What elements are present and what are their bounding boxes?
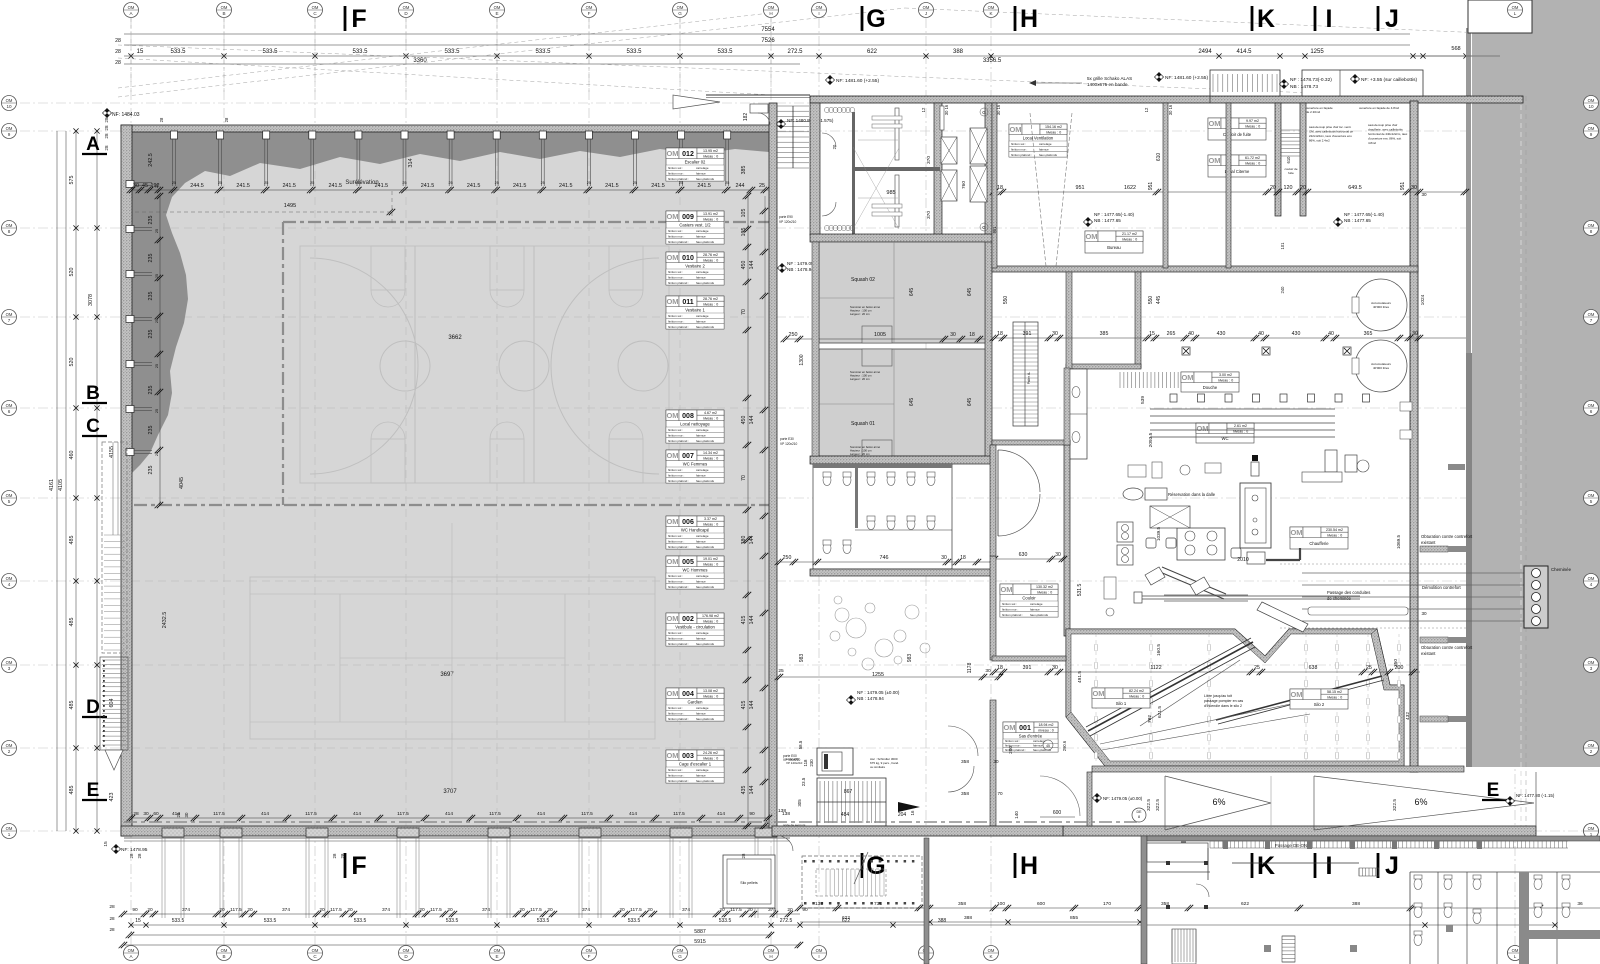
silo pellets box [723, 855, 775, 908]
svg-text:OM: OM [494, 5, 501, 10]
svg-text:105: 105 [741, 209, 747, 218]
svg-text:25: 25 [172, 181, 176, 185]
svg-text:Démolition contrefort: Démolition contrefort [1422, 585, 1461, 590]
svg-text:OM: OM [1000, 585, 1012, 594]
svg-text:20: 20 [787, 907, 793, 913]
court dashed boundary [283, 221, 769, 223]
svg-text:G: G [678, 11, 682, 16]
svg-text:3: 3 [1590, 666, 1593, 671]
svg-text:NB : 1478.94: NB : 1478.94 [787, 267, 814, 272]
svg-text:117.5: 117.5 [213, 811, 225, 817]
svg-text:30: 30 [133, 183, 139, 189]
svg-text:28: 28 [332, 853, 337, 858]
top wall pilasters [171, 131, 178, 139]
obturation bar upper [1448, 464, 1465, 470]
svg-text:finition mur :: finition mur : [668, 474, 685, 478]
svg-text:25: 25 [402, 181, 406, 185]
svg-text:533.5: 533.5 [170, 49, 186, 55]
svg-text:244: 244 [736, 183, 745, 189]
svg-text:414: 414 [445, 811, 453, 817]
svg-text:3078: 3078 [88, 294, 94, 306]
svg-text:144: 144 [749, 261, 755, 270]
svg-text:533.5: 533.5 [444, 49, 460, 55]
svg-text:OM: OM [1196, 424, 1208, 433]
svg-text:OM: OM [403, 948, 410, 953]
top wall main [810, 96, 1523, 103]
svg-text:15: 15 [103, 841, 109, 847]
grid axes [130, 18, 132, 948]
svg-text:OM: OM [1085, 232, 1097, 241]
svg-text:154.16 m2: 154.16 m2 [1045, 125, 1062, 129]
svg-text:8: 8 [1138, 815, 1140, 819]
svg-text:OM: OM [666, 212, 678, 221]
svg-text:NF : 1477.65(-1.40): NF : 1477.65(-1.40) [1094, 212, 1135, 217]
silo conveyors [1088, 642, 1253, 731]
svg-text:374: 374 [182, 907, 190, 913]
top right white box [1468, 0, 1532, 33]
chaufferie machinery [1117, 522, 1133, 542]
ramp left wall [1087, 772, 1092, 826]
svg-text:C: C [86, 416, 100, 437]
svg-text:faience: faience [1039, 148, 1049, 152]
svg-text:finition plafond :: finition plafond : [1011, 153, 1032, 157]
svg-text:5887: 5887 [694, 929, 706, 935]
svg-text:28.76 m2: 28.76 m2 [703, 297, 718, 301]
svg-text:358: 358 [961, 791, 969, 797]
label silo 2 [1290, 689, 1348, 709]
svg-text:OM: OM [6, 826, 13, 831]
svg-text:OM: OM [1009, 125, 1021, 134]
svg-text:782: 782 [1147, 715, 1153, 723]
svg-text:130.32 m2: 130.32 m2 [1036, 585, 1053, 589]
svg-text:G: G [982, 225, 986, 230]
dark edge strip upper [1466, 28, 1471, 353]
elevator and stair [817, 748, 853, 775]
svg-text:432: 432 [1405, 712, 1411, 720]
svg-text:OM: OM [6, 312, 13, 317]
colonnade columns [124, 837, 790, 839]
svg-text:40: 40 [1258, 331, 1264, 337]
svg-text:3662: 3662 [448, 335, 462, 341]
svg-text:5915: 5915 [694, 939, 706, 945]
svg-text:8: 8 [8, 229, 11, 234]
svg-text:OM: OM [312, 948, 319, 953]
svg-text:550: 550 [1148, 296, 1154, 305]
svg-text:105: 105 [741, 228, 747, 237]
local ventilation left wall [992, 103, 997, 268]
svg-text:porte E30: porte E30 [780, 437, 794, 441]
svg-text:30: 30 [143, 811, 149, 817]
svg-text:saut-de-loup prise d'air loc.: saut-de-loup prise d'air loc. venti. [1309, 125, 1352, 129]
mid dim row 1622 [995, 191, 1466, 193]
svg-text:OM: OM [666, 614, 678, 623]
svg-text:374: 374 [768, 907, 776, 913]
svg-text:30: 30 [1052, 665, 1058, 671]
label local ventilation [1009, 124, 1067, 157]
svg-text:117.5: 117.5 [489, 811, 501, 817]
svg-text:645: 645 [909, 288, 915, 297]
svg-text:101: 101 [1280, 242, 1285, 250]
svg-text:138: 138 [815, 901, 823, 907]
svg-text:L: L [1514, 11, 1517, 16]
dim row 391-430 [995, 337, 1466, 339]
svg-text:F: F [351, 5, 366, 33]
svg-text:finition mur :: finition mur : [668, 434, 685, 438]
svg-text:Bureau: Bureau [1107, 245, 1121, 250]
svg-text:13.95 m2: 13.95 m2 [703, 149, 718, 153]
svg-text:faience: faience [696, 320, 706, 324]
svg-text:OM: OM [1588, 493, 1595, 498]
svg-text:002: 002 [682, 616, 694, 623]
ramp top wall span [1092, 766, 1464, 772]
label bureau [1085, 231, 1143, 253]
svg-text:Local nettoyage: Local nettoyage [680, 421, 710, 426]
svg-text:carrelage: carrelage [696, 314, 709, 318]
svg-text:533.5: 533.5 [719, 918, 732, 924]
svg-text:738: 738 [874, 901, 882, 907]
bottom dim row1 [124, 913, 800, 915]
svg-text:2: 2 [1590, 749, 1593, 754]
svg-text:H: H [1020, 5, 1038, 33]
svg-text:120: 120 [1284, 185, 1293, 191]
svg-text:230.54 m2: 230.54 m2 [1326, 528, 1343, 532]
svg-text:117.5: 117.5 [581, 811, 593, 817]
svg-text:2010: 2010 [1237, 557, 1249, 563]
svg-text:ou similaire: ou similaire [870, 765, 886, 769]
silo room walls [1066, 629, 1404, 766]
squash dim row [786, 338, 985, 340]
hall interior dim row 241.5 [132, 189, 769, 191]
svg-text:391: 391 [1023, 331, 1032, 337]
svg-text:niveau : 0: niveau : 0 [703, 619, 719, 623]
svg-text:OM: OM [816, 5, 823, 10]
svg-text:NB : 1478.73: NB : 1478.73 [1290, 84, 1318, 90]
svg-text:carrelage: carrelage [696, 468, 709, 472]
svg-text:OM: OM [1208, 119, 1220, 128]
svg-text:241.5: 241.5 [421, 183, 435, 189]
svg-text:G: G [982, 110, 986, 115]
svg-text:15: 15 [137, 49, 144, 55]
svg-text:230: 230 [809, 759, 814, 767]
svg-text:faux-plafonds: faux-plafonds [696, 585, 715, 589]
svg-text:finition mur :: finition mur : [668, 712, 685, 716]
svg-text:existant: existant [1421, 651, 1436, 656]
svg-text:244.5: 244.5 [190, 183, 204, 189]
svg-text:faux-plafonds: faux-plafonds [696, 779, 715, 783]
svg-text:533.5: 533.5 [537, 918, 550, 924]
grid circles over gray [1508, 3, 1523, 18]
svg-text:faux-plafonds: faux-plafonds [696, 479, 715, 483]
svg-text:414.5: 414.5 [1236, 49, 1252, 55]
svg-text:30: 30 [1412, 331, 1418, 337]
svg-text:carrelage: carrelage [696, 574, 709, 578]
svg-text:d'ouverture env. 86%, soit: d'ouverture env. 86%, soit [1368, 137, 1401, 141]
svg-text:finition mur :: finition mur : [668, 637, 685, 641]
svg-text:niveau : 0: niveau : 0 [1327, 533, 1343, 537]
svg-text:faux-plafonds: faux-plafonds [696, 439, 715, 443]
svg-text:380: 380 [741, 536, 747, 545]
svg-text:finition mur :: finition mur : [668, 276, 685, 280]
svg-text:I: I [818, 954, 819, 959]
svg-text:H: H [769, 11, 772, 16]
svg-text:NB : 1477.65: NB : 1477.65 [1344, 218, 1371, 223]
svg-text:Passage des conduites: Passage des conduites [1327, 590, 1370, 595]
svg-text:007: 007 [682, 453, 694, 460]
svg-text:1300: 1300 [799, 354, 805, 365]
svg-text:saut-de-loup prise d'air: saut-de-loup prise d'air [1368, 123, 1397, 127]
right gray field top [1532, 0, 1600, 33]
svg-text:25: 25 [155, 229, 159, 233]
svg-text:374: 374 [682, 907, 690, 913]
section letter F bottom [344, 853, 347, 878]
svg-text:242.5: 242.5 [148, 153, 154, 167]
svg-text:117.5: 117.5 [330, 907, 342, 913]
svg-text:NF: 1484.03: NF: 1484.03 [112, 112, 140, 118]
section letter I bottom [1314, 853, 1317, 878]
svg-text:235: 235 [148, 426, 154, 435]
svg-text:finition plafond :: finition plafond : [668, 585, 689, 589]
left wall pilasters [126, 181, 134, 188]
escalier 02 treads [777, 105, 809, 107]
svg-text:638: 638 [1309, 665, 1318, 671]
svg-text:1069.5: 1069.5 [1396, 535, 1401, 549]
svg-text:OM: OM [768, 5, 775, 10]
svg-text:carrelage: carrelage [696, 534, 709, 538]
svg-text:430: 430 [1217, 331, 1226, 337]
svg-text:OM: OM [6, 660, 13, 665]
svg-text:WC Hommes: WC Hommes [683, 567, 708, 572]
svg-text:13.91 m2: 13.91 m2 [703, 212, 718, 216]
svg-text:Passage DE-ON: Passage DE-ON [1275, 843, 1307, 848]
squash left wall [812, 242, 819, 456]
tennis court markings [250, 577, 655, 739]
svg-text:610: 610 [1286, 156, 1291, 164]
svg-text:OM: OM [666, 149, 678, 158]
svg-text:350: 350 [1393, 659, 1399, 667]
svg-text:OM: OM [494, 948, 501, 953]
svg-text:985: 985 [886, 190, 895, 196]
projection dashed diagonals [118, 8, 905, 97]
svg-text:faux-plafonds: faux-plafonds [696, 545, 715, 549]
svg-text:WC Femmes: WC Femmes [683, 461, 707, 466]
svg-text:533.5: 533.5 [626, 49, 642, 55]
svg-text:25: 25 [759, 183, 765, 189]
svg-text:finition plafond :: finition plafond : [668, 325, 689, 329]
svg-text:12: 12 [1144, 107, 1149, 112]
svg-text:finition sol :: finition sol : [1005, 739, 1020, 743]
svg-text:144: 144 [749, 701, 755, 710]
svg-text:20: 20 [647, 907, 653, 913]
svg-text:1024: 1024 [1420, 294, 1426, 305]
svg-text:28: 28 [224, 117, 229, 122]
grille corridor jamb [1209, 96, 1211, 103]
svg-text:faux-plafonds: faux-plafonds [696, 717, 715, 721]
svg-text:20: 20 [247, 907, 253, 913]
svg-text:855: 855 [1070, 915, 1078, 921]
svg-text:28: 28 [104, 125, 109, 131]
svg-text:370: 370 [926, 211, 932, 219]
svg-text:241.5: 241.5 [697, 183, 711, 189]
svg-text:430: 430 [1292, 331, 1301, 337]
svg-text:passage pompier en cas: passage pompier en cas [1204, 699, 1243, 703]
obturation annotations [1420, 546, 1448, 552]
svg-text:finition plafond :: finition plafond : [668, 439, 689, 443]
svg-text:20: 20 [619, 907, 625, 913]
svg-text:176.98 m2: 176.98 m2 [702, 614, 719, 618]
svg-text:144: 144 [749, 786, 755, 795]
svg-text:28: 28 [115, 60, 121, 66]
svg-text:314: 314 [408, 158, 414, 167]
svg-text:1005: 1005 [874, 332, 886, 338]
svg-text:carrelage: carrelage [696, 428, 709, 432]
svg-text:951: 951 [1148, 182, 1154, 191]
svg-text:niveau : 0: niveau : 0 [703, 217, 719, 221]
svg-text:VP 120x210: VP 120x210 [786, 761, 803, 765]
svg-text:28: 28 [340, 853, 345, 858]
svg-text:600: 600 [1037, 901, 1045, 907]
svg-text:241.5: 241.5 [605, 183, 619, 189]
vestibule right wall upper [990, 445, 996, 556]
basketball court markings [300, 246, 669, 483]
svg-text:finition plafond :: finition plafond : [668, 240, 689, 244]
mid horizontal walls [992, 440, 1070, 445]
svg-text:28: 28 [109, 916, 115, 921]
svg-text:622: 622 [1241, 901, 1249, 907]
svg-text:finition sol :: finition sol : [1002, 602, 1017, 606]
svg-text:30: 30 [950, 332, 956, 338]
svg-text:25: 25 [587, 181, 591, 185]
svg-text:Chaufferie: Chaufferie [1309, 541, 1329, 546]
svg-text:OM: OM [6, 126, 13, 131]
svg-text:3707: 3707 [443, 789, 457, 795]
top NF annotations [825, 75, 834, 84]
svg-text:ouverture en façade de 4.8m2: ouverture en façade de 4.8m2 [1359, 106, 1399, 110]
svg-text:OM: OM [666, 557, 678, 566]
svg-text:30: 30 [941, 555, 947, 561]
svg-text:OM: OM [1588, 660, 1595, 665]
svg-text:6: 6 [1590, 409, 1593, 414]
entrance doors [998, 450, 1040, 492]
svg-text:A: A [86, 134, 100, 155]
porte box right wall b [1400, 430, 1412, 439]
label local citerne [1208, 155, 1266, 177]
svg-text:58.5: 58.5 [798, 740, 803, 749]
squash 01 court [819, 349, 985, 456]
svg-text:carrelage: carrelage [696, 706, 709, 710]
bottom wc fixtures [1410, 871, 1600, 873]
section letter G bottom [861, 853, 864, 878]
svg-text:5: 5 [1590, 499, 1593, 504]
svg-text:25: 25 [495, 181, 499, 185]
svg-text:F: F [351, 852, 366, 880]
svg-text:2494: 2494 [1198, 49, 1212, 55]
svg-text:235: 235 [148, 254, 154, 263]
svg-text:6: 6 [8, 409, 11, 414]
svg-text:25: 25 [218, 181, 222, 185]
svg-text:OM: OM [677, 5, 684, 10]
svg-text:241.5: 241.5 [651, 183, 665, 189]
svg-text:NF: +3.55 (sur caillebottis): NF: +3.55 (sur caillebottis) [1361, 77, 1418, 83]
svg-text:20: 20 [447, 907, 453, 913]
section letter H top [1014, 6, 1017, 31]
svg-text:10: 10 [1588, 104, 1594, 109]
svg-text:011: 011 [682, 299, 693, 306]
svg-text:OM: OM [1208, 156, 1220, 165]
svg-text:OM, avec caillebottis horizont: OM, avec caillebottis horizontal de [1309, 130, 1353, 134]
svg-text:finition mur :: finition mur : [1002, 608, 1019, 612]
svg-text:531.5: 531.5 [1077, 584, 1083, 597]
svg-text:Local Ventilation: Local Ventilation [1023, 135, 1054, 140]
svg-text:160.5: 160.5 [1156, 644, 1162, 656]
svg-text:533.5: 533.5 [446, 918, 459, 924]
svg-text:006: 006 [682, 519, 694, 526]
bottom dim rows 3-4 [131, 934, 771, 936]
bottom dash-dot axis [124, 821, 1140, 823]
svg-text:28: 28 [159, 117, 164, 122]
svg-text:25: 25 [310, 181, 314, 185]
svg-text:finition sol :: finition sol : [668, 768, 683, 772]
svg-text:305: 305 [797, 799, 802, 807]
svg-text:3360: 3360 [413, 58, 427, 64]
hall left dim chain [159, 196, 161, 505]
vestiaire rooms block [810, 103, 820, 235]
wall above squash [810, 234, 992, 242]
canopy double line [706, 94, 810, 96]
svg-text:G: G [866, 5, 885, 33]
svg-text:1495: 1495 [284, 203, 296, 209]
svg-text:388: 388 [1352, 901, 1360, 907]
svg-text:539: 539 [1140, 396, 1146, 404]
svg-text:niveau : 0: niveau : 0 [1327, 695, 1343, 699]
svg-text:NF : 1478.73(-0.32): NF : 1478.73(-0.32) [1290, 77, 1332, 83]
svg-text:NF: 1477.80 (-1.15): NF: 1477.80 (-1.15) [1516, 793, 1555, 798]
svg-text:235: 235 [148, 330, 154, 339]
svg-text:OM: OM [1181, 373, 1193, 382]
svg-text:621.5: 621.5 [1157, 706, 1163, 718]
svg-text:Couloir: Couloir [1022, 595, 1036, 600]
svg-text:415: 415 [741, 701, 747, 710]
svg-text:Cage d'escalier 1: Cage d'escalier 1 [679, 761, 712, 766]
svg-text:20: 20 [1270, 185, 1276, 191]
svg-text:18: 18 [997, 665, 1003, 671]
svg-text:414: 414 [537, 811, 545, 817]
svg-text:385: 385 [1100, 331, 1109, 337]
svg-text:491.5: 491.5 [1077, 671, 1083, 683]
svg-text:18: 18 [969, 332, 975, 338]
svg-text:1400x675 en bande: 1400x675 en bande [1087, 82, 1128, 87]
external stair dashed [802, 856, 922, 908]
svg-text:Obturation contre contrefort: Obturation contre contrefort [1421, 534, 1473, 539]
svg-text:H: H [769, 954, 772, 959]
svg-text:645: 645 [967, 398, 973, 407]
hall right wall [769, 103, 777, 836]
svg-text:18: 18 [960, 555, 966, 561]
svg-text:faience: faience [696, 774, 706, 778]
svg-text:OM: OM [403, 5, 410, 10]
svg-text:117.5: 117.5 [230, 907, 242, 913]
svg-text:144: 144 [749, 536, 755, 545]
top dimension rows [124, 33, 1410, 35]
svg-text:760: 760 [961, 181, 967, 189]
svg-text:82.24 m2: 82.24 m2 [1129, 689, 1144, 693]
svg-text:5: 5 [8, 499, 11, 504]
bureau area walls [1135, 272, 1141, 368]
svg-text:B: B [222, 11, 225, 16]
svg-text:204: 204 [898, 812, 907, 818]
svg-text:niveau : 0: niveau : 0 [1245, 161, 1261, 165]
label silo 1 [1092, 688, 1150, 708]
svg-text:niveau : 0: niveau : 0 [1037, 590, 1053, 594]
